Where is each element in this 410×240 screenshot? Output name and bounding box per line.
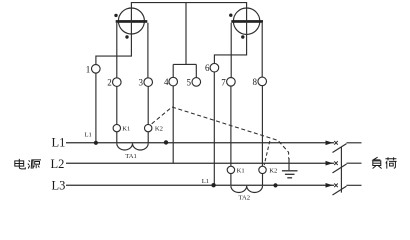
- switch gang link bar: [340, 147, 342, 193]
- CT TA2 secondary terminal K1: [227, 166, 234, 173]
- svg-text:TA2: TA2: [239, 195, 251, 202]
- terminal 3: [144, 78, 153, 87]
- CT TA2 winding arcs under L3: [231, 186, 263, 193]
- terminal 5: [192, 78, 201, 87]
- CT TA1 winding arcs under L1: [117, 143, 148, 150]
- switch blade L2: [333, 164, 347, 173]
- wire L1 to load: [347, 142, 362, 144]
- svg-text:2: 2: [107, 78, 112, 88]
- wire terminal 8 down to TA2 K2: [261, 86, 263, 167]
- terminal 4: [169, 77, 178, 86]
- node junction dot L3 at terminal-6 tap: [211, 183, 215, 187]
- wire meter2 bar left end down to terminal 7: [230, 23, 232, 78]
- wire TA2 K1 to L3 line: [230, 174, 232, 186]
- wire meter2 bottom jog to terminal 6: [214, 34, 246, 64]
- node junction dot L1 mid: [164, 140, 168, 144]
- switch contact x L3: [334, 184, 338, 188]
- meter element 2 current-coil bar: [231, 20, 263, 23]
- label 电源 (power source) hand-drawn glyphs: [15, 159, 41, 169]
- wire meter1 bar right end down to terminal 3: [147, 23, 149, 78]
- wire terminal 3 down to TA1 K2: [147, 86, 149, 124]
- svg-text:5: 5: [187, 77, 192, 87]
- terminal number labels: [86, 63, 258, 87]
- terminal 6: [210, 63, 219, 72]
- phase line L2: [66, 162, 334, 164]
- wire TA2 K2 to L3 line: [262, 174, 264, 186]
- node junction dot L3 right: [273, 183, 277, 187]
- label 负荷 (load) hand-drawn glyphs: [373, 157, 397, 168]
- node junction dot L1 at terminal-1 tap: [94, 141, 98, 145]
- ground symbol bars: [282, 170, 298, 172]
- svg-text:4: 4: [164, 77, 169, 87]
- wire terminal 4 down to L2 line: [172, 86, 174, 163]
- arrow on L3 toward load: [326, 183, 333, 188]
- wire meter2 bar right end down to terminal 8: [261, 23, 263, 77]
- terminal 1: [92, 65, 101, 74]
- terminal 7: [227, 78, 236, 87]
- wire TA1 K2 to L1 line: [147, 132, 149, 143]
- meter element 1 vertical voltage-coil line: [130, 8, 132, 33]
- svg-text:K2: K2: [155, 125, 163, 132]
- svg-text:3: 3: [139, 78, 144, 88]
- svg-text:7: 7: [221, 77, 226, 87]
- wire dashed branch to TA2 K2: [264, 141, 270, 165]
- switch blade L3: [333, 186, 347, 195]
- meter element 1 current-coil bar: [116, 20, 148, 23]
- svg-text:8: 8: [253, 77, 258, 87]
- CT TA1 secondary terminal K1: [113, 124, 120, 131]
- wire L2 to load: [347, 162, 362, 164]
- wire meter1 bottom jog to terminal 1: [96, 34, 131, 65]
- phase line L3: [66, 184, 334, 186]
- phase line L1: [66, 142, 334, 144]
- wire L3 to load: [347, 184, 362, 186]
- op-amp U2 meter element 2 circle: [233, 8, 259, 34]
- polarity dot meter 2 current coil: [229, 14, 232, 17]
- op-amp U1 meter element 1 circle: [118, 8, 144, 34]
- wire TA1 K1 to L1 line: [116, 132, 118, 143]
- svg-text:K2: K2: [269, 167, 277, 174]
- svg-text:L1: L1: [85, 131, 92, 138]
- wire dashed earthing link from TA1 K2 to ground: [152, 107, 289, 159]
- svg-text:K1: K1: [122, 125, 130, 132]
- ground symbol stem: [288, 158, 290, 170]
- svg-text:L2: L2: [51, 157, 65, 171]
- meter element 2 vertical voltage-coil line: [246, 8, 248, 33]
- arrow on L1 toward load: [326, 141, 333, 146]
- svg-text:L1: L1: [52, 135, 66, 149]
- wire terminal 6 down to L3 line: [213, 72, 215, 185]
- wire terminal 1 down to L1 line: [95, 73, 97, 143]
- svg-text:L3: L3: [52, 178, 66, 192]
- svg-text:K1: K1: [237, 167, 245, 174]
- wire top bus connecting meter element tops: [131, 3, 246, 9]
- svg-text:TA1: TA1: [125, 153, 137, 160]
- CT TA1 secondary terminal K2: [145, 124, 152, 131]
- svg-text:L1: L1: [202, 178, 209, 185]
- switch blade L1: [333, 144, 347, 153]
- arrow on L2 toward load: [326, 161, 333, 166]
- polarity dot meter 1 current coil: [114, 14, 117, 17]
- wire meter1 bar left end down to terminal 2: [116, 23, 118, 78]
- svg-text:1: 1: [86, 64, 91, 74]
- wire terminal 2 down to TA1 K1: [116, 86, 118, 124]
- switch contact x L1: [334, 141, 338, 145]
- svg-text:6: 6: [205, 63, 210, 73]
- wire voltage branch from top bus to terminals 4 and 5: [173, 3, 186, 65]
- CT TA2 secondary terminal K2: [259, 166, 266, 173]
- wire terminal 7 down to TA2 K1: [230, 86, 232, 166]
- polarity dot meter 1 voltage coil: [125, 35, 128, 38]
- terminal 2: [113, 78, 122, 87]
- terminal 8: [258, 77, 267, 86]
- switch contact x L2: [334, 161, 338, 165]
- polarity dot meter 2 voltage coil: [241, 35, 244, 38]
